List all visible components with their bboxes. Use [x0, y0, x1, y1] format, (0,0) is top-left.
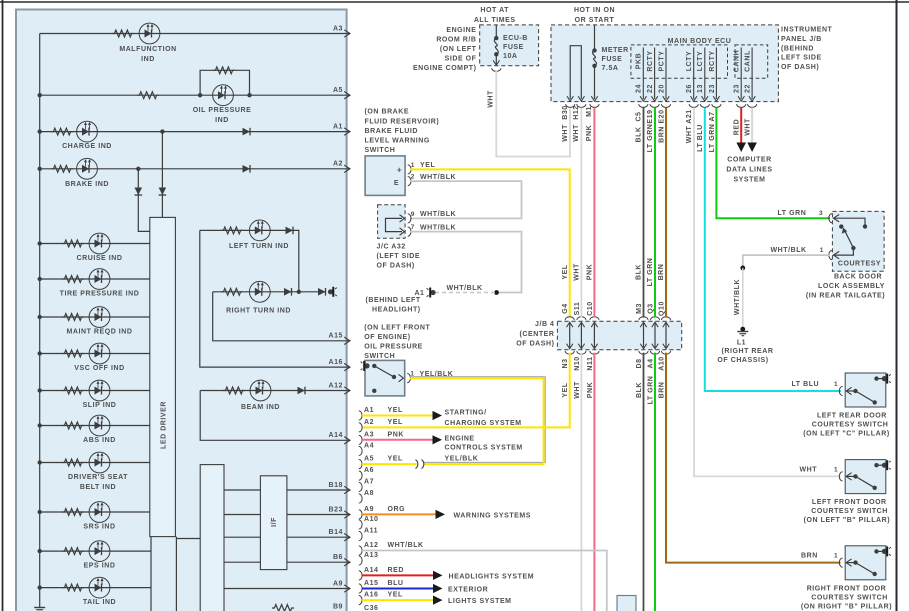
resistor LEFT TURN IND [221, 227, 243, 234]
svg-text:CRUISE IND: CRUISE IND [77, 255, 123, 262]
svg-text:INSTRUMENT: INSTRUMENT [781, 27, 833, 34]
svg-text:WHT/BLK: WHT/BLK [420, 211, 456, 218]
svg-text:HOT IN ON: HOT IN ON [574, 7, 615, 14]
ECU pin PKB 24 [642, 48, 644, 100]
ECU-B fuse box (Engine Room R/B) [480, 25, 539, 66]
J/B4 feedthrough S11-N10 [577, 317, 586, 320]
wire LEFT TURN IND row [200, 230, 299, 291]
wire BLU A15 exterior lights [362, 588, 433, 590]
svg-text:ROOM R/B: ROOM R/B [436, 37, 476, 44]
wire TAIL IND row [40, 587, 151, 589]
svg-text:YEL: YEL [388, 456, 403, 463]
svg-text:WHT: WHT [562, 124, 569, 142]
svg-text:HEADLIGHTS SYSTEM: HEADLIGHTS SYSTEM [449, 574, 535, 581]
wire LED driver left edge extension [150, 537, 152, 611]
svg-text:RCTY: RCTY [709, 50, 716, 71]
wire B23 row left [224, 514, 260, 516]
wire CRUISE IND row [40, 243, 150, 245]
J/B4 feedthrough M3-D8 [639, 317, 648, 320]
wire WHT/BLK brake switch to J/C A32 pin9 [410, 181, 522, 218]
svg-text:PNK: PNK [587, 382, 594, 398]
svg-text:CHARGING SYSTEM: CHARGING SYSTEM [445, 420, 522, 427]
svg-text:DRIVER'S SEAT: DRIVER'S SEAT [68, 474, 128, 481]
svg-text:1: 1 [411, 162, 415, 169]
LED CRUISE IND [89, 233, 110, 254]
svg-text:YEL: YEL [388, 407, 403, 414]
wire PNK A3 engine controls [362, 439, 433, 441]
svg-text:B23: B23 [329, 506, 344, 513]
resistor DRIVER'S SEAT BELT IND [62, 459, 84, 466]
svg-text:SWITCH: SWITCH [365, 147, 396, 154]
connector arc meter A5 [359, 460, 362, 469]
svg-text:WHT: WHT [574, 263, 581, 281]
wire LT GRN A7 to back door lock [716, 108, 830, 219]
svg-text:WHT/BLK: WHT/BLK [420, 224, 456, 231]
connector arc oil switch pin1 [407, 374, 410, 383]
node oil-pressure left junction [198, 93, 202, 97]
wire beam feed down to A14 [200, 391, 346, 441]
wire BLK C5 down [643, 108, 645, 318]
connector arc pin 13 [700, 104, 709, 107]
svg-text:B6: B6 [333, 554, 343, 561]
svg-text:(BEHIND LEFT: (BEHIND LEFT [366, 297, 421, 304]
resistor MALFUNCTION IND [112, 30, 134, 37]
connector arc meter A12 [359, 546, 362, 555]
svg-text:SLIP IND: SLIP IND [83, 402, 117, 409]
wire RED CANH [740, 108, 742, 144]
svg-text:A12: A12 [364, 542, 379, 549]
svg-text:BRN: BRN [658, 382, 665, 399]
svg-text:C10: C10 [587, 301, 594, 316]
MAIN BODY ECU box [551, 25, 778, 102]
resistor VSC OFF IND [62, 350, 84, 357]
case connector oil pressure switch [364, 363, 369, 368]
svg-text:OR START: OR START [575, 17, 615, 24]
svg-text:LCTY: LCTY [697, 51, 704, 71]
wire right-turn feed down to A15 [213, 292, 347, 341]
interface feed box [200, 465, 224, 611]
connector arc M1 [590, 104, 599, 107]
svg-text:METER: METER [602, 47, 629, 54]
resistor bottom cut [272, 605, 294, 611]
wire oil-pressure parallel loop [200, 70, 249, 95]
svg-text:WHT/BLK: WHT/BLK [734, 279, 741, 315]
wire WHT/BLK down to L1 [742, 268, 744, 329]
svg-text:IND: IND [215, 117, 229, 124]
svg-text:LED DRIVER: LED DRIVER [161, 401, 168, 449]
svg-text:OF CHASSIS): OF CHASSIS) [717, 357, 768, 364]
svg-text:23: 23 [709, 84, 716, 93]
diode BEAM IND [298, 387, 306, 395]
page left border [2, 0, 4, 611]
ECU pin PCTY 20 [665, 48, 667, 100]
diode brake-to-driver [135, 188, 143, 196]
resistor OIL PRESSURE IND parallel [213, 67, 235, 74]
svg-text:PNK: PNK [587, 264, 594, 280]
LED BEAM IND [250, 380, 271, 401]
svg-text:M1: M1 [586, 106, 593, 117]
svg-text:BLK: BLK [636, 264, 643, 280]
LED TAIL IND [89, 577, 110, 598]
wire A9 row [224, 588, 347, 590]
svg-text:LT GRN: LT GRN [647, 124, 654, 153]
svg-text:3: 3 [819, 210, 823, 217]
wire RED A14 headlights [362, 574, 433, 576]
connector arc meter A8 [359, 494, 362, 503]
svg-text:(ON RIGHT "B" PILLAR): (ON RIGHT "B" PILLAR) [801, 603, 892, 610]
svg-text:20: 20 [658, 84, 665, 93]
ECU pin CANL 22 [751, 48, 753, 100]
wire charge junction down to LED driver [161, 132, 163, 218]
connector arc meter A6 [359, 471, 362, 480]
back door courtesy switch contacts [833, 215, 839, 222]
svg-text:ORG: ORG [388, 506, 406, 513]
wire WHT A21 to left front door switch [694, 108, 841, 477]
connector arc meter A13 [359, 556, 362, 565]
svg-text:C36: C36 [364, 605, 379, 611]
svg-text:TAIL IND: TAIL IND [83, 599, 116, 606]
svg-text:Q10: Q10 [658, 301, 665, 316]
svg-text:23: 23 [734, 84, 741, 93]
connector arc meter A15 [359, 584, 362, 593]
svg-text:9: 9 [411, 211, 415, 218]
connector arc door switch ('LEFT FRONT DOOR', 849.3) [839, 472, 842, 481]
svg-text:7: 7 [411, 224, 415, 231]
connector arc pin 22 [748, 104, 757, 107]
brake fluid level warning switch box [365, 156, 405, 196]
diode charge row [243, 128, 251, 136]
svg-text:WHT: WHT [686, 126, 693, 144]
svg-text:OIL PRESSURE: OIL PRESSURE [193, 107, 252, 114]
case connector turn output [328, 289, 333, 294]
wire YEL A5 to splice [362, 463, 417, 465]
wire PNK M1 down [593, 108, 595, 318]
oil pressure switch contacts [372, 364, 376, 368]
LED ABS IND [89, 415, 110, 436]
svg-text:A16: A16 [364, 592, 379, 599]
connector arc meter A9 [359, 510, 362, 519]
wire SLIP IND row [40, 390, 150, 392]
svg-text:RCTY: RCTY [647, 50, 654, 71]
svg-text:BRN: BRN [658, 126, 665, 143]
svg-text:LEFT FRONT DOOR: LEFT FRONT DOOR [812, 499, 887, 506]
svg-text:A4: A4 [364, 443, 374, 450]
LED MAINT REQD IND [89, 307, 110, 328]
svg-text:OF ENGINE): OF ENGINE) [364, 334, 410, 341]
wire BRN E20 to right front door switch [665, 108, 667, 318]
svg-text:H12: H12 [573, 105, 580, 120]
svg-text:SIDE OF: SIDE OF [445, 56, 477, 63]
LED LEFT TURN IND [249, 220, 270, 241]
svg-text:BRN: BRN [658, 264, 665, 281]
ground L1 [740, 327, 745, 332]
svg-text:24: 24 [636, 84, 643, 93]
svg-text:(BEHIND: (BEHIND [781, 45, 814, 52]
svg-text:MAINT REQD IND: MAINT REQD IND [66, 329, 132, 336]
wire YEL A16 [362, 599, 433, 601]
connector arc pin 22 [650, 104, 659, 107]
ECU pin LCTY 13 [704, 48, 706, 100]
resistor TAIL IND [62, 584, 84, 591]
svg-text:FUSE: FUSE [602, 56, 623, 63]
resistor CRUISE IND [62, 240, 84, 247]
svg-text:WHT/BLK: WHT/BLK [771, 247, 807, 254]
svg-text:N10: N10 [574, 356, 581, 371]
svg-text:1: 1 [834, 553, 838, 560]
LED SLIP IND [89, 380, 110, 401]
svg-text:BRN: BRN [801, 553, 818, 560]
connector arc back door pin1 [829, 251, 832, 260]
wire YEL A1 starting/charging [362, 415, 433, 417]
combination meter panel [16, 10, 347, 611]
node WHT/BLK splice [494, 290, 499, 295]
svg-text:TIRE PRESSURE IND: TIRE PRESSURE IND [60, 291, 140, 298]
wire MALFUNCTION IND row [40, 33, 347, 35]
junction connector J/C A32 box [378, 205, 406, 239]
svg-text:PCTY: PCTY [658, 51, 665, 72]
svg-text:IND: IND [141, 56, 155, 63]
svg-text:10A: 10A [503, 53, 518, 60]
svg-text:BELT IND: BELT IND [80, 484, 116, 491]
svg-text:A11: A11 [364, 528, 378, 535]
connector arc J/C A32 pin7 [408, 227, 411, 236]
svg-text:Q3: Q3 [647, 303, 654, 313]
svg-text:HEADLIGHT): HEADLIGHT) [372, 307, 421, 314]
LED SRS IND [89, 502, 110, 523]
connector A1 behind left headlight [430, 290, 435, 295]
svg-text:YEL: YEL [562, 382, 569, 397]
LED BRAKE IND [77, 158, 98, 179]
wire WHT/BLK J/C A32 pin7 loop to headlight connector [410, 232, 522, 293]
svg-text:A2: A2 [333, 161, 343, 168]
connector arc meter A16 [359, 596, 362, 605]
door courtesy switch box ('RIGHT FRONT DOOR', 846.5) [845, 546, 886, 580]
svg-text:A9: A9 [333, 580, 343, 587]
svg-text:G4: G4 [562, 303, 569, 313]
svg-text:HOT AT: HOT AT [480, 7, 509, 14]
wire BRAKE IND row [40, 168, 347, 170]
svg-text:STARTING/: STARTING/ [445, 409, 487, 416]
svg-text:BACK DOOR: BACK DOOR [834, 274, 882, 281]
connector arc meter A7 [359, 482, 362, 491]
svg-text:A6: A6 [364, 467, 374, 474]
fuse METER 7.5A [594, 25, 596, 51]
svg-text:PKB: PKB [636, 53, 643, 69]
wire B14 row left [224, 536, 260, 538]
node brake junction [136, 167, 140, 171]
svg-text:A10: A10 [364, 516, 379, 523]
svg-text:LIGHTS SYSTEM: LIGHTS SYSTEM [448, 598, 512, 605]
svg-text:MAIN BODY ECU: MAIN BODY ECU [668, 38, 732, 45]
svg-text:A16: A16 [329, 359, 344, 366]
wire YEL/BLK oil switch to A5 splice [410, 377, 546, 463]
svg-text:+: + [397, 165, 402, 174]
node WHT/BLK L1 top [740, 266, 745, 271]
LED VSC OFF IND [89, 343, 110, 364]
J/B4 feedthrough G4-N3 [565, 317, 574, 320]
wire DRIVER'S SEAT BELT IND row [40, 462, 150, 464]
J/B4 feedthrough Q10-A10 [661, 317, 670, 320]
svg-text:LEVEL WARNING: LEVEL WARNING [365, 138, 430, 145]
resistor BEAM IND [223, 387, 245, 394]
svg-text:ENGINE COMPT): ENGINE COMPT) [413, 65, 477, 72]
wire LED driver to IF feed box [176, 538, 200, 540]
svg-text:COURTESY SWITCH: COURTESY SWITCH [811, 594, 888, 601]
svg-text:ALL TIMES: ALL TIMES [474, 17, 516, 24]
resistor SLIP IND [62, 387, 84, 394]
connector arc pin 20 [661, 104, 670, 107]
ECU pin CANH 23 [740, 48, 742, 100]
wire SRS IND row [40, 511, 150, 513]
svg-text:N11: N11 [587, 356, 594, 370]
svg-text:RED: RED [388, 567, 404, 574]
node oil-pressure right junction [247, 93, 251, 97]
svg-text:A10: A10 [658, 356, 665, 371]
svg-text:COURTESY: COURTESY [838, 260, 881, 267]
svg-text:B9: B9 [333, 603, 343, 610]
wire TIRE PRESSURE IND row [40, 278, 150, 280]
case ground door switch [882, 549, 887, 554]
connector arc B30 [566, 104, 575, 107]
wire WHT H12 down [580, 108, 582, 318]
svg-text:(RIGHT REAR: (RIGHT REAR [722, 348, 774, 355]
svg-text:1: 1 [834, 467, 838, 474]
left supply bus wire [39, 34, 41, 608]
svg-text:WHT/BLK: WHT/BLK [447, 285, 483, 292]
svg-text:ENGINE: ENGINE [445, 435, 475, 442]
svg-text:A1: A1 [364, 407, 374, 414]
case ground door switch [882, 463, 887, 468]
ground G1 bottom of bus [34, 607, 45, 609]
connector arc back door pin3 [829, 214, 832, 223]
diode RIGHT TURN IND [284, 288, 292, 296]
svg-text:EXTERIOR: EXTERIOR [448, 586, 488, 593]
wire LT GRN E19 down [654, 108, 656, 318]
resistor SRS IND [62, 509, 84, 516]
wire MAINT REQD IND row [40, 316, 150, 318]
door switch contacts [846, 387, 852, 394]
svg-text:(ON LEFT FRONT: (ON LEFT FRONT [364, 325, 430, 332]
svg-text:WHT: WHT [745, 118, 752, 136]
wire B18 row right [287, 489, 347, 491]
J/B4 feedthrough C10-N11 [590, 317, 599, 320]
svg-text:A15: A15 [329, 333, 344, 340]
partial box bottom [617, 596, 636, 611]
svg-text:LCTY: LCTY [686, 51, 693, 71]
resistor ABS IND [62, 422, 84, 429]
svg-text:LOCK ASSEMBLY: LOCK ASSEMBLY [818, 283, 885, 290]
ECU pin RCTY 23 [715, 48, 717, 100]
svg-text:N3: N3 [562, 358, 569, 368]
resistor RIGHT TURN IND [221, 288, 243, 295]
svg-text:COURTESY SWITCH: COURTESY SWITCH [811, 508, 888, 515]
wire YEL below J/B4 to A2 [362, 353, 570, 428]
resistor BRAKE IND [51, 165, 73, 172]
svg-text:1: 1 [820, 247, 824, 254]
wire ORG A9 warning systems [362, 513, 436, 515]
connector arc meter A10 [359, 520, 362, 529]
connector arc pin 26 [689, 104, 698, 107]
svg-text:BLK: BLK [636, 126, 643, 142]
J/B4 feedthrough Q3-A4 [650, 317, 659, 320]
fuse ECU-B 10A [495, 25, 497, 38]
svg-text:YEL: YEL [420, 162, 435, 169]
svg-text:A3: A3 [333, 25, 343, 32]
svg-text:OF DASH): OF DASH) [377, 263, 415, 270]
wire B14 row right [287, 536, 347, 538]
resistor MAINT REQD IND [62, 314, 84, 321]
svg-text:A9: A9 [364, 506, 374, 513]
connector arc pin 23 [712, 104, 721, 107]
wire B6 row right [287, 561, 347, 563]
svg-text:LT GRN: LT GRN [709, 124, 716, 153]
svg-text:FUSE: FUSE [503, 44, 524, 51]
svg-text:A13: A13 [364, 552, 379, 559]
svg-text:I/F: I/F [271, 517, 278, 527]
wire left-turn feed down to A16 [200, 230, 347, 367]
svg-text:A5: A5 [333, 87, 343, 94]
svg-text:COMPUTER: COMPUTER [727, 157, 771, 164]
jumper inside J/C A32 [386, 218, 403, 231]
svg-text:1: 1 [834, 381, 838, 388]
wire WHT CANL [751, 108, 753, 144]
page top border [0, 1, 909, 3]
svg-text:(LEFT SIDE: (LEFT SIDE [377, 253, 421, 260]
svg-text:A7: A7 [709, 111, 716, 121]
ECU inner pin group box 1 [631, 45, 728, 78]
svg-text:A7: A7 [364, 479, 374, 486]
wire brake junction down to LED driver [138, 169, 150, 232]
svg-text:LEFT SIDE: LEFT SIDE [781, 55, 822, 62]
LED DRIVER'S SEAT BELT IND [89, 452, 110, 473]
svg-text:PNK: PNK [388, 431, 404, 438]
svg-text:WHT: WHT [487, 90, 494, 108]
svg-text:7.5A: 7.5A [602, 65, 619, 72]
svg-text:E20: E20 [658, 109, 665, 123]
door switch contacts [846, 473, 852, 480]
connector arc brake switch pin1 [408, 165, 411, 174]
oil pressure switch box [365, 360, 405, 396]
svg-text:A1: A1 [333, 123, 343, 130]
svg-text:LT GRN: LT GRN [778, 210, 807, 217]
svg-text:A14: A14 [364, 567, 379, 574]
svg-text:A12: A12 [329, 382, 344, 389]
connector arc door switch ('RIGHT FRONT DOOR', 846.5) [839, 558, 842, 567]
svg-text:LT BLU: LT BLU [697, 124, 704, 152]
svg-text:(ON LEFT: (ON LEFT [440, 46, 477, 53]
svg-text:RIGHT TURN IND: RIGHT TURN IND [226, 307, 291, 314]
svg-text:COURTESY SWITCH: COURTESY SWITCH [812, 422, 889, 429]
svg-text:(ON BRAKE: (ON BRAKE [365, 109, 410, 116]
svg-text:A21: A21 [686, 109, 693, 124]
svg-text:A8: A8 [364, 490, 374, 497]
svg-text:LT GRN: LT GRN [647, 376, 654, 405]
svg-text:A14: A14 [329, 432, 344, 439]
wire VSC OFF IND row [40, 353, 150, 355]
svg-text:ABS IND: ABS IND [83, 437, 116, 444]
resistor TIRE PRESSURE IND [62, 276, 84, 283]
wire EPS IND row [40, 550, 151, 552]
svg-text:22: 22 [745, 84, 752, 93]
diode LEFT TURN IND [286, 227, 294, 235]
svg-text:WARNING SYSTEMS: WARNING SYSTEMS [454, 512, 531, 519]
ECU inner pin group box 2 [735, 45, 768, 78]
svg-text:A3: A3 [364, 431, 374, 438]
back door lock assembly box [832, 211, 884, 271]
connector arc meter A14 [359, 571, 362, 580]
door courtesy switch box ('LEFT FRONT DOOR', 849.3) [845, 460, 886, 494]
svg-text:BLK: BLK [636, 382, 643, 398]
